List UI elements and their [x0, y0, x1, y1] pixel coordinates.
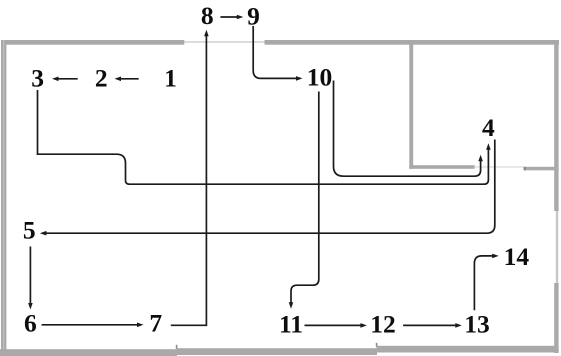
svg-text:6: 6 [24, 309, 37, 338]
wire arrowhead at 3 [52, 77, 59, 82]
svg-text:13: 13 [464, 310, 490, 339]
wire arrow 2 to 3 [58, 78, 78, 80]
wire arrowhead at 6 [28, 303, 33, 310]
wire bottom wall [0, 343, 559, 356]
wire arrowhead at 2 [115, 77, 122, 82]
wire arrowhead at 8 [204, 30, 209, 37]
svg-text:3: 3 [31, 64, 44, 93]
wire arrowhead at 7 [137, 323, 144, 328]
wire arrowhead at 5 [40, 231, 47, 236]
wire arrow 8 to 9 [220, 16, 238, 18]
wire arrow 6 to 7 [42, 324, 139, 326]
wire inner room left wall [409, 41, 413, 169]
svg-text:2: 2 [95, 64, 108, 93]
wire arrowhead at 9 [237, 15, 244, 20]
wire path 3 to 4 [38, 90, 489, 184]
svg-text:1: 1 [164, 64, 177, 93]
wire right wall [554, 41, 558, 353]
wire path 13 to 14 [474, 256, 493, 310]
wire arrow 1 to 2 [120, 78, 139, 80]
wire arrowhead at 4 from 10 [478, 155, 483, 162]
wire arrowhead at 13 [455, 323, 462, 328]
svg-text:8: 8 [201, 1, 214, 30]
svg-text:4: 4 [482, 113, 495, 142]
svg-text:7: 7 [149, 309, 162, 338]
svg-text:14: 14 [504, 242, 530, 271]
wire arrowhead at 12 [360, 323, 367, 328]
wire path 10 to 11 [291, 92, 319, 304]
wire arrow 11 to 12 [305, 324, 362, 326]
svg-text:11: 11 [279, 310, 303, 339]
wire arrowhead at 10 [296, 76, 303, 81]
wire inner room bottom wall [409, 165, 558, 170]
wire arrow 12 to 13 [403, 324, 456, 326]
svg-text:10: 10 [307, 62, 333, 91]
wire path 7 to 8 [171, 35, 207, 325]
wire path 4 to 5 [45, 140, 495, 234]
wire left wall [1, 40, 6, 356]
wire arrowhead at 4 from 3 [486, 143, 491, 150]
wire arrowhead at 14 [492, 254, 499, 259]
wire path 9 to 10 [253, 26, 297, 78]
svg-text:12: 12 [370, 310, 396, 339]
svg-text:5: 5 [23, 215, 36, 244]
wire path 10 to 4 [334, 81, 481, 177]
wire arrowhead at 11 [289, 302, 294, 309]
wire arrow 5 to 6 [29, 247, 31, 305]
wire top wall [1, 40, 559, 45]
